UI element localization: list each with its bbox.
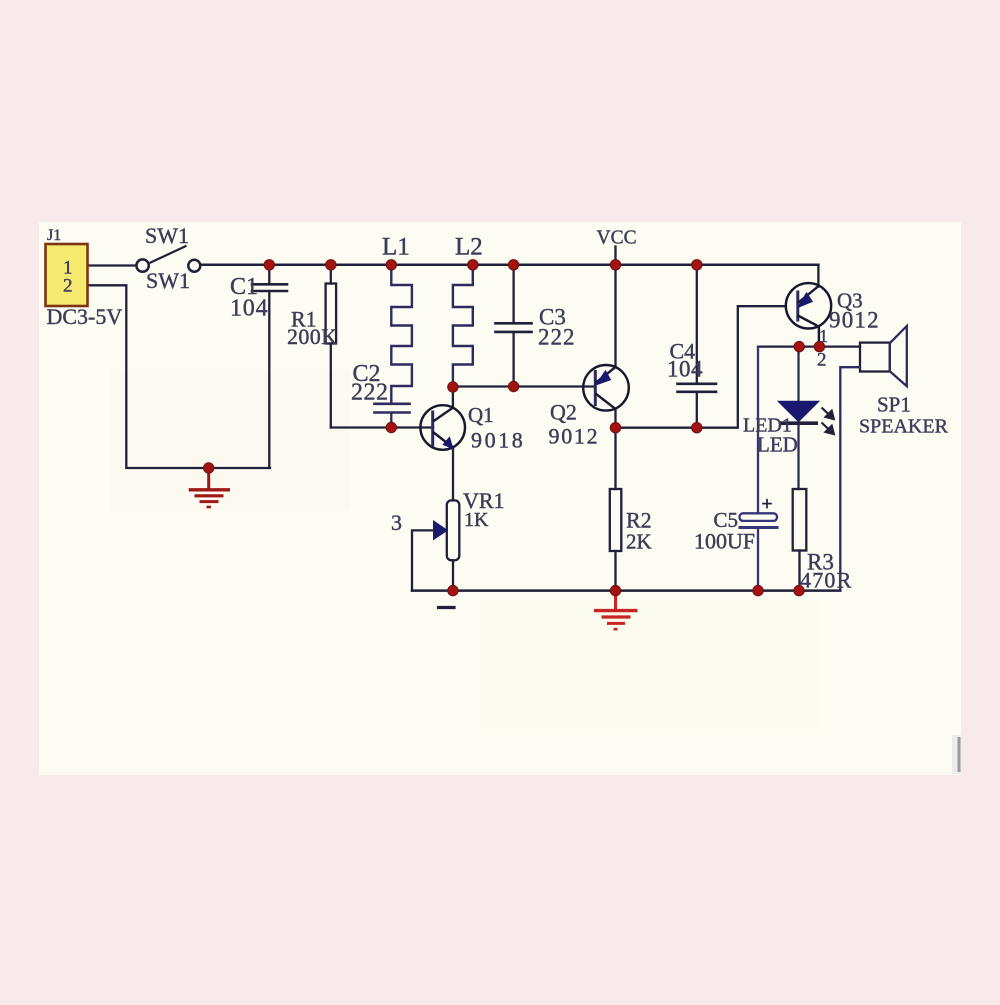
svg-text:9012: 9012 [829,308,880,333]
svg-text:Q1: Q1 [468,403,494,427]
svg-text:104: 104 [667,357,703,382]
svg-text:SP1: SP1 [877,393,911,417]
svg-text:L2: L2 [455,234,483,261]
svg-text:3: 3 [391,510,402,535]
svg-text:Q2: Q2 [550,400,577,425]
svg-text:1K: 1K [464,509,489,531]
svg-text:1: 1 [819,326,828,346]
svg-text:2: 2 [817,350,827,371]
svg-text:470R: 470R [800,568,852,593]
svg-text:2: 2 [63,276,73,297]
svg-text:VCC: VCC [597,228,637,249]
svg-text:9018: 9018 [471,428,525,453]
svg-text:J1: J1 [47,227,61,244]
svg-text:9012: 9012 [549,424,600,449]
svg-text:104: 104 [230,296,268,322]
svg-text:DC3-5V: DC3-5V [47,304,123,329]
svg-text:SPEAKER: SPEAKER [859,416,949,438]
svg-text:222: 222 [538,325,576,350]
svg-text:LED: LED [757,433,798,457]
svg-text:L1: L1 [382,234,410,261]
svg-text:100UF: 100UF [694,529,755,554]
svg-text:2K: 2K [626,530,652,554]
svg-text:200K: 200K [287,324,338,349]
svg-text:SW1: SW1 [145,223,189,248]
svg-text:SW1: SW1 [146,268,190,293]
svg-text:222: 222 [351,380,389,406]
